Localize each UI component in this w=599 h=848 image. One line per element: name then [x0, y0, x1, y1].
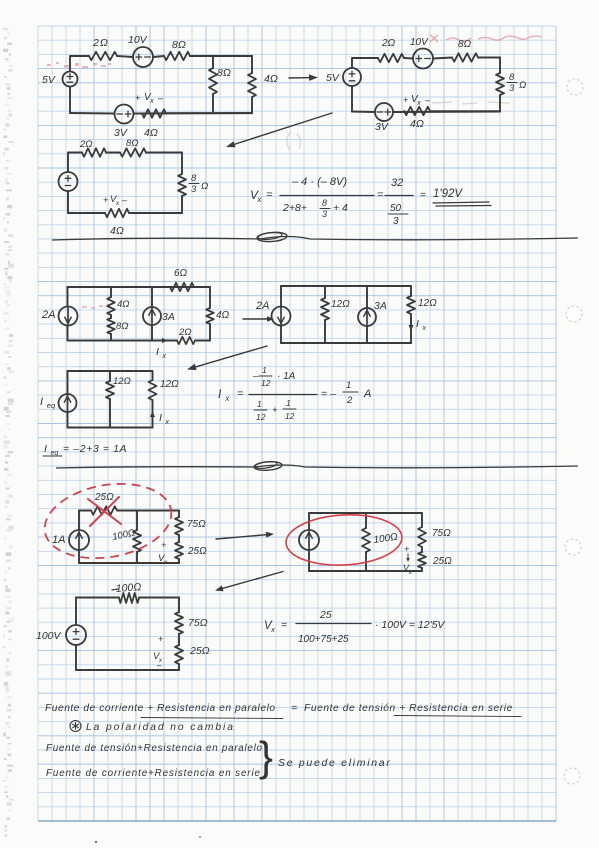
label 3A (D) — [162, 311, 175, 323]
resistor 75ohm (H) — [418, 527, 426, 547]
svg-text:+: + — [404, 544, 409, 554]
current source 1A (H) — [299, 530, 319, 550]
svg-text:· 100V = 12'5V: · 100V = 12'5V — [375, 619, 445, 631]
svg-text:12Ω: 12Ω — [418, 298, 437, 309]
svg-text:32: 32 — [391, 177, 403, 189]
wire circuit G outline — [79, 511, 179, 564]
svg-text:x: x — [270, 625, 275, 634]
svg-text:– 4 · (– 8V): – 4 · (– 8V) — [291, 176, 347, 188]
svg-text:=: = — [420, 190, 426, 201]
label 3V (B) — [375, 121, 389, 133]
resistor 25ohm (G) — [91, 506, 117, 514]
label 4ohm bottom (A) — [144, 127, 158, 139]
svg-text:x: x — [163, 559, 168, 566]
svg-text:La polaridad no cambia: La polaridad no cambia — [86, 722, 235, 733]
note line1 right underline — [394, 716, 521, 717]
resistor 8ohm (C) — [120, 148, 146, 156]
svg-text:x: x — [149, 98, 154, 105]
red cross over 25ohm (G) — [88, 497, 121, 526]
label 2ohm (D) — [178, 327, 192, 338]
svg-text:75Ω: 75Ω — [432, 528, 451, 539]
current source 1A (G) — [69, 530, 89, 550]
voltage source V4 5V — [343, 68, 361, 86]
svg-text:8: 8 — [322, 198, 327, 208]
resistor 8ohm (D) — [107, 318, 115, 334]
label 100ohm (H) — [373, 532, 399, 546]
svg-text:8Ω: 8Ω — [217, 67, 231, 79]
label 2ohm (A) — [92, 37, 109, 49]
svg-text:3: 3 — [393, 216, 399, 227]
label 8/3 ohm (C) — [189, 173, 208, 195]
svg-text:3A: 3A — [162, 311, 175, 323]
resistor 12ohm (F) — [106, 381, 114, 399]
note line3 — [46, 743, 263, 754]
svg-text:=: = — [377, 189, 384, 201]
svg-text:3: 3 — [191, 184, 197, 195]
svg-text:4Ω: 4Ω — [144, 127, 158, 139]
note line1 right — [304, 703, 513, 714]
label Vx (H) — [403, 544, 413, 576]
svg-text:100V: 100V — [36, 630, 62, 642]
resistor 75ohm (I) — [175, 612, 183, 634]
resistor 2ohm (D) — [177, 337, 195, 344]
wire F branch2 — [109, 371, 111, 428]
arrow D to E — [243, 316, 274, 322]
red ellipse (H) — [285, 512, 403, 568]
svg-text:10V: 10V — [128, 34, 148, 46]
svg-text:x: x — [165, 419, 170, 426]
svg-text:+: + — [158, 634, 163, 644]
svg-text:–: – — [424, 95, 431, 105]
svg-text:2Ω: 2Ω — [79, 139, 93, 150]
svg-text:3: 3 — [322, 209, 327, 219]
red dashed ellipse (G) — [39, 474, 178, 567]
svg-text:5V: 5V — [42, 74, 56, 86]
label 100ohm (G) — [111, 527, 136, 543]
svg-text:Fuente de corriente+Resistenci: Fuente de corriente+Resistencia en serie — [46, 768, 261, 779]
svg-text:3A: 3A — [374, 300, 387, 312]
note line1 underline — [141, 718, 283, 719]
wire circuit B outline — [352, 58, 500, 113]
speck 1 — [95, 841, 97, 843]
svg-text:1A: 1A — [52, 534, 65, 546]
wire mid branch circuit A — [212, 56, 214, 113]
svg-text:8Ω: 8Ω — [116, 321, 129, 332]
arrow to F — [187, 346, 267, 370]
svg-text:A: A — [363, 388, 371, 400]
svg-text:50: 50 — [390, 203, 402, 214]
arrow H to I — [215, 572, 283, 592]
separator squiggle 2 — [56, 460, 578, 471]
arrow Ix (F) — [150, 411, 155, 425]
note line1 left — [45, 703, 276, 714]
note line2 — [86, 722, 235, 733]
svg-text:12Ω: 12Ω — [113, 376, 131, 387]
note line4 — [46, 768, 261, 779]
note asterisk — [70, 721, 81, 732]
svg-text:25Ω: 25Ω — [94, 492, 114, 503]
arrow B to C — [226, 113, 332, 147]
formula Ix — [218, 365, 371, 422]
voltage source V1 5V — [63, 72, 78, 87]
current source 3A (D) — [143, 307, 161, 325]
label Ix (D) — [156, 346, 167, 360]
resistor 12ohm right (F) — [149, 380, 157, 400]
svg-text:· 1A: · 1A — [277, 371, 296, 382]
resistor 4ohm right (D) — [206, 308, 214, 324]
svg-text:3V: 3V — [375, 121, 389, 133]
svg-text:12: 12 — [285, 411, 295, 421]
svg-text:Fuente de tensión+Resistencia: Fuente de tensión+Resistencia en paralel… — [46, 743, 263, 754]
svg-text:12: 12 — [261, 378, 271, 388]
svg-text:x: x — [422, 325, 427, 332]
resistor 4ohm (C) — [105, 209, 129, 217]
svg-text:2A: 2A — [255, 300, 269, 312]
svg-text:I: I — [159, 412, 162, 424]
label 100V (I) — [36, 630, 62, 642]
label 5V (V4) — [326, 72, 340, 84]
voltage source V2 10V — [133, 47, 153, 67]
label Vx (G) — [158, 540, 168, 566]
resistor 8ohm (B) — [452, 53, 478, 61]
label 100ohm (I) — [112, 581, 142, 595]
label 4ohm right (A) — [264, 73, 278, 85]
svg-text:eq: eq — [47, 401, 56, 410]
label 75ohm (G) — [187, 519, 206, 530]
label Ieq (F) — [40, 396, 56, 410]
label 8/3 ohm (B) — [507, 72, 526, 94]
resistor 12ohm right (E) — [407, 296, 415, 314]
label 4ohm (B) — [410, 118, 424, 130]
svg-text:I: I — [44, 443, 47, 455]
label 25ohm (I) — [189, 645, 210, 657]
label 10V (V5) — [410, 37, 429, 48]
label 4ohm (D) — [117, 299, 130, 310]
svg-text:2: 2 — [346, 395, 353, 406]
label 25ohm (H) — [432, 556, 452, 567]
label +Vx- (B) — [403, 94, 431, 107]
label 8ohm (D) — [116, 321, 129, 332]
svg-text:8Ω: 8Ω — [172, 39, 186, 51]
current source 3A (E) — [358, 308, 376, 326]
label 75ohm (I) — [188, 617, 208, 629]
svg-text:–: – — [121, 195, 128, 205]
svg-text:75Ω: 75Ω — [188, 617, 208, 629]
svg-text:2Ω: 2Ω — [381, 38, 396, 49]
label 4ohm right (D) — [216, 310, 230, 321]
note brace — [259, 733, 273, 780]
label 6ohm (D) — [174, 268, 188, 279]
svg-text:Fuente de corriente + Resisten: Fuente de corriente + Resistencia en par… — [45, 703, 276, 714]
speck 2 — [199, 836, 200, 837]
svg-text:I: I — [156, 346, 159, 358]
label 2A (D) — [41, 309, 55, 321]
svg-text:100+75+25: 100+75+25 — [298, 634, 349, 645]
wire D branch2 — [110, 287, 112, 341]
svg-text:8Ω: 8Ω — [126, 138, 139, 149]
wire circuit D outline — [68, 287, 211, 341]
formula Vx2 — [264, 609, 445, 645]
hole punch 3 — [565, 539, 581, 555]
label Ix (F) — [159, 412, 170, 426]
label 2ohm (B) — [381, 38, 396, 49]
label 12ohm right (F) — [160, 379, 179, 390]
hole punch 4 — [564, 768, 580, 784]
svg-text:25Ω: 25Ω — [432, 556, 452, 567]
voltage source V7 — [59, 172, 78, 191]
svg-text:Fuente de tensión + Resistenci: Fuente de tensión + Resistencia en serie — [304, 703, 513, 714]
svg-text:2+8+: 2+8+ — [282, 202, 307, 214]
svg-text:I: I — [416, 318, 419, 330]
svg-text:1: 1 — [286, 398, 291, 408]
resistor 8/3 ohm (C) — [178, 174, 186, 196]
note equals — [291, 702, 297, 714]
label +Vx- (A) — [135, 92, 164, 105]
label 12ohm right (E) — [418, 298, 437, 309]
svg-text:Ω: Ω — [201, 181, 208, 192]
arrow A to B — [289, 74, 318, 81]
svg-text:4Ω: 4Ω — [410, 118, 424, 130]
svg-text:4Ω: 4Ω — [264, 73, 278, 85]
resistor 100ohm (H) — [362, 528, 370, 552]
resistor 2ohm (B) — [378, 54, 404, 62]
current source Ieq (F) — [59, 394, 77, 412]
current source 2A (D) — [59, 307, 78, 326]
resistor 25ohm lower (G) — [175, 542, 183, 559]
label 5V (V1) — [42, 74, 56, 86]
hole punch 2 — [566, 306, 582, 322]
svg-text:4Ω: 4Ω — [110, 225, 124, 237]
resistor 100ohm (I) — [119, 593, 139, 603]
svg-text:Se puede eliminar: Se puede eliminar — [278, 757, 392, 769]
resistor 4ohm bottom (A) — [142, 109, 166, 117]
resistor 2ohm (A) — [89, 52, 117, 60]
svg-text:+: + — [403, 95, 408, 105]
label 75ohm (H) — [432, 528, 451, 539]
arrow G to H — [216, 532, 274, 539]
label 12ohm (E) — [331, 299, 350, 310]
svg-text:2A: 2A — [41, 309, 55, 321]
svg-text:+ 4: + 4 — [333, 202, 348, 214]
svg-text:12Ω: 12Ω — [160, 379, 179, 390]
wire circuit I outline — [76, 598, 179, 671]
svg-text:+: + — [272, 405, 278, 416]
label 1A (G) — [52, 534, 65, 546]
resistor 4ohm (B) — [404, 107, 430, 115]
scanner edge strip left — [3, 28, 14, 837]
svg-text:=: = — [266, 189, 273, 201]
svg-text:I: I — [40, 396, 43, 408]
resistor 8/3 ohm (B) — [496, 73, 504, 95]
formula Vx result — [250, 176, 491, 227]
svg-text:=: = — [291, 702, 297, 714]
wire circuit F outline — [68, 371, 153, 428]
red bleed-through top-right — [430, 35, 541, 43]
svg-text:+: + — [161, 540, 166, 550]
label 2ohm (C) — [79, 139, 93, 150]
wire circuit E outline — [281, 286, 411, 343]
label 8ohm (B) — [458, 39, 472, 50]
label 8ohm (C) — [126, 138, 139, 149]
wire circuit A outline — [70, 56, 252, 114]
wire D branch3 — [151, 287, 153, 341]
svg-text:= –2+3 = 1A: = –2+3 = 1A — [63, 443, 127, 455]
label 8ohm mid (A) — [217, 67, 231, 79]
current source 2A (E) — [272, 307, 291, 326]
label 2A (E) — [255, 300, 269, 312]
svg-text:8: 8 — [191, 173, 197, 184]
label Vx (I) — [153, 634, 163, 670]
arrow Ix (E) — [409, 317, 414, 331]
voltage source V3 3V — [115, 105, 134, 124]
formula Ieq — [43, 443, 127, 457]
resistor 2ohm (C) — [82, 148, 106, 156]
svg-text:4Ω: 4Ω — [216, 310, 230, 321]
resistor 8ohm mid (A) — [209, 68, 217, 94]
wire circuit H outline — [309, 513, 422, 571]
svg-text:+: + — [103, 195, 108, 205]
separator squiggle 1 — [52, 231, 578, 242]
svg-text:25Ω: 25Ω — [189, 645, 210, 657]
resistor 12ohm (E) — [321, 298, 329, 320]
svg-text:4Ω: 4Ω — [117, 299, 130, 310]
wire G branch2 — [136, 511, 138, 564]
svg-text:=: = — [237, 388, 244, 400]
svg-text:2Ω: 2Ω — [178, 327, 192, 338]
voltage source V6 3V — [375, 103, 393, 121]
svg-text:x: x — [416, 100, 421, 107]
note eliminar — [278, 757, 392, 769]
resistor 4ohm (D) — [107, 297, 115, 315]
svg-text:2Ω: 2Ω — [92, 37, 109, 49]
svg-text:8Ω: 8Ω — [458, 39, 472, 50]
svg-text:Ω: Ω — [519, 80, 526, 91]
resistor 25ohm (I) — [175, 645, 183, 664]
label 25ohm (G) — [94, 492, 114, 503]
label 3V (V3) — [114, 127, 128, 139]
voltage source 100V (I) — [66, 625, 86, 645]
svg-text:12: 12 — [256, 412, 266, 422]
label 4ohm (C) — [110, 225, 124, 237]
svg-text:=: = — [281, 619, 287, 631]
svg-text:25: 25 — [319, 609, 332, 621]
svg-text:}: } — [259, 733, 273, 780]
wire circuit C outline — [68, 153, 182, 214]
resistor 4ohm right (A) — [248, 73, 256, 97]
svg-text:–: – — [252, 371, 259, 382]
wire E branch2 — [324, 286, 326, 343]
svg-text:+: + — [135, 93, 140, 103]
svg-text:75Ω: 75Ω — [187, 519, 206, 530]
hole punch 1 — [567, 79, 583, 95]
wire H branch2 — [365, 513, 367, 571]
resistor 25ohm (H) — [418, 552, 426, 568]
voltage source V5 10V — [413, 49, 433, 69]
label 25ohm lower (G) — [187, 546, 207, 557]
svg-text:–: – — [157, 93, 164, 103]
svg-text:= –: = – — [321, 388, 336, 400]
svg-text:x: x — [408, 569, 413, 576]
label Ix (E) — [416, 318, 427, 332]
svg-text:–: – — [156, 661, 162, 670]
svg-text:12Ω: 12Ω — [331, 299, 350, 310]
svg-text:5V: 5V — [326, 72, 340, 84]
resistor 75ohm (G) — [175, 517, 183, 535]
label +Vx- (C) — [103, 194, 128, 207]
label 12ohm (F) — [113, 376, 131, 387]
resistor 100ohm (G) — [133, 530, 141, 552]
svg-text:100Ω: 100Ω — [115, 581, 141, 595]
svg-text:6Ω: 6Ω — [174, 268, 188, 279]
resistor 8ohm top (A) — [164, 52, 190, 60]
label 10V (V2) — [128, 34, 148, 46]
svg-text:1: 1 — [346, 380, 351, 391]
svg-text:1: 1 — [262, 365, 267, 375]
svg-text:1: 1 — [257, 399, 262, 409]
svg-text:8: 8 — [509, 72, 515, 83]
red bleed-through mid-left — [82, 305, 103, 309]
red bleed-through top-left — [47, 62, 111, 68]
faint pencil ghost marks — [287, 102, 510, 150]
svg-text:25Ω: 25Ω — [187, 546, 207, 557]
wire E branch3 — [366, 286, 368, 343]
svg-text:x: x — [115, 200, 120, 207]
svg-text:1'92V: 1'92V — [433, 188, 463, 200]
svg-text:x: x — [162, 353, 167, 360]
label 8ohm top (A) — [172, 39, 186, 51]
svg-text:3: 3 — [509, 83, 515, 94]
arrow Ix (D) — [154, 338, 168, 343]
resistor 6ohm (D) — [170, 283, 194, 291]
label 3A (E) — [374, 300, 387, 312]
svg-text:10V: 10V — [410, 37, 429, 48]
